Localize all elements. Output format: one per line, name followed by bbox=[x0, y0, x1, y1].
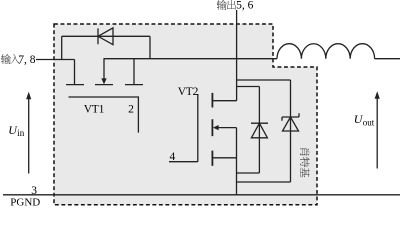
svg-text:VT1: VT1 bbox=[84, 104, 105, 116]
svg-text:4: 4 bbox=[170, 151, 176, 163]
svg-text:7, 8: 7, 8 bbox=[18, 54, 36, 66]
svg-text:5, 6: 5, 6 bbox=[236, 0, 254, 12]
svg-text:2: 2 bbox=[128, 104, 134, 116]
svg-text:PGND: PGND bbox=[10, 196, 40, 208]
svg-text:3: 3 bbox=[31, 185, 37, 197]
svg-text:in: in bbox=[17, 128, 25, 138]
svg-text:VT2: VT2 bbox=[178, 86, 199, 98]
svg-text:out: out bbox=[363, 118, 375, 128]
